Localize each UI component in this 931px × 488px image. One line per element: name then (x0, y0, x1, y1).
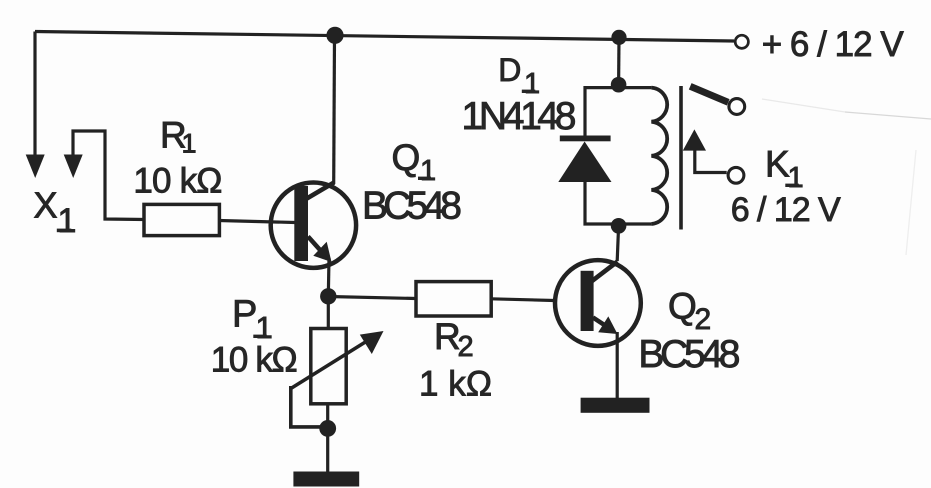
svg-text:1: 1 (182, 129, 197, 159)
svg-text:X: X (34, 185, 58, 226)
svg-text:+ 6 / 12 V: + 6 / 12 V (762, 25, 905, 64)
svg-text:BC548: BC548 (638, 333, 740, 376)
svg-text:10 kΩ: 10 kΩ (211, 341, 298, 380)
svg-text:1 kΩ: 1 kΩ (419, 364, 492, 403)
svg-text:1: 1 (58, 202, 77, 240)
svg-text:2: 2 (695, 303, 712, 336)
svg-text:6 / 12 V: 6 / 12 V (731, 191, 841, 229)
svg-text:Q: Q (392, 137, 421, 178)
svg-text:1: 1 (788, 162, 804, 194)
svg-text:P: P (232, 294, 257, 336)
svg-text:10 kΩ: 10 kΩ (133, 161, 222, 200)
svg-text:2: 2 (458, 331, 474, 363)
svg-text:BC548: BC548 (362, 184, 462, 227)
svg-text:D: D (498, 52, 521, 88)
svg-text:Q: Q (668, 286, 697, 327)
svg-text:K: K (765, 144, 790, 185)
svg-text:1: 1 (420, 155, 436, 187)
svg-text:1N4148: 1N4148 (462, 95, 577, 138)
